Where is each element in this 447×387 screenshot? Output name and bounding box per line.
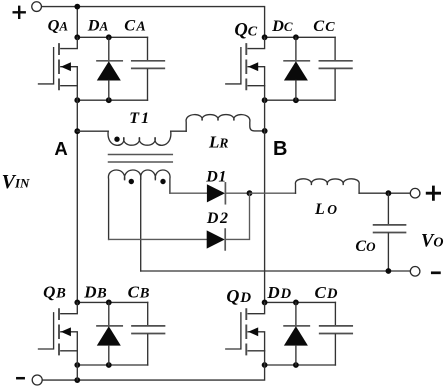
svg-text:LR: LR — [208, 133, 228, 152]
output + sign — [427, 187, 439, 199]
transistor QC (MOSFET) — [226, 37, 265, 100]
svg-text:CO: CO — [355, 238, 376, 255]
input + sign — [14, 7, 25, 18]
svg-text:CD: CD — [315, 283, 339, 302]
diode DD — [284, 302, 309, 365]
diode D1 — [207, 183, 226, 204]
wire top-right source bus — [265, 99, 336, 101]
junction DD top — [293, 300, 299, 306]
transistor QD (MOSFET) — [226, 302, 265, 365]
inductor LR — [186, 115, 265, 132]
junction DA bottom — [106, 97, 112, 103]
wire top-left source bus — [77, 99, 147, 101]
junction QB drain — [74, 300, 80, 306]
wire QB source to bottom rail — [76, 365, 78, 380]
junction DB bottom — [106, 362, 112, 368]
capacitor CD — [320, 302, 353, 365]
input - terminal circle — [32, 375, 42, 385]
input - sign — [17, 377, 23, 380]
diode D2 — [207, 229, 226, 250]
transformer T1 primary winding — [108, 131, 171, 145]
svg-text:D2: D2 — [206, 210, 228, 227]
wire top-right drain bus — [265, 36, 336, 38]
svg-text:VIN: VIN — [2, 171, 30, 193]
capacitor CO — [374, 193, 406, 271]
junction QB source — [74, 362, 80, 368]
diode DB — [97, 302, 122, 365]
svg-text:LO: LO — [314, 201, 337, 218]
T1 primary polarity dot — [114, 137, 119, 142]
wire D1 cathode to junction — [225, 192, 249, 194]
svg-text:DB: DB — [83, 283, 107, 302]
transistor QA (MOSFET) — [39, 37, 78, 100]
diode DC — [284, 37, 309, 100]
junction DC top — [293, 34, 299, 40]
transformer T1 secondary winding — [108, 170, 170, 271]
junction QB source column / bottom rail — [74, 377, 80, 383]
junction QC source — [262, 97, 268, 103]
capacitor CA — [132, 37, 165, 100]
output - sign — [432, 271, 439, 274]
svg-text:QC: QC — [234, 21, 257, 41]
svg-text:CB: CB — [128, 283, 150, 302]
svg-text:D1: D1 — [205, 169, 226, 186]
svg-text:QD: QD — [226, 286, 251, 306]
junction QA source — [74, 97, 80, 103]
diode DA — [97, 37, 122, 100]
capacitor CB — [132, 302, 165, 365]
wire node A to primary — [77, 130, 108, 132]
input + terminal circle — [32, 2, 42, 12]
svg-text:DD: DD — [266, 283, 291, 302]
wire bottom-left drain bus — [77, 301, 147, 303]
node A junction — [74, 128, 80, 134]
wire top-left drain bus — [77, 36, 147, 38]
node B junction — [262, 128, 268, 134]
junction QD source — [262, 362, 268, 368]
svg-text:DC: DC — [271, 16, 293, 35]
junction DB top — [106, 300, 112, 306]
wire bottom-right source bus — [265, 364, 336, 366]
transformer T1 core — [109, 155, 173, 163]
output + terminal circle — [410, 188, 420, 198]
svg-text:CA: CA — [124, 15, 145, 34]
wire bottom-left source bus — [77, 364, 147, 366]
junction top rail / QA column — [74, 4, 80, 10]
inductor LO — [295, 179, 359, 193]
svg-text:QA: QA — [48, 16, 69, 35]
wire LO to + output — [359, 192, 410, 194]
wire QA drain column — [76, 7, 78, 38]
wire primary to LR — [171, 130, 187, 132]
wire rectifier junction to LO — [250, 192, 296, 194]
wire D2 anode from secondary bottom — [109, 238, 207, 240]
wire D2 cathode up to junction — [225, 193, 249, 239]
wire left bridge leg (node A column) — [76, 100, 78, 302]
junction DA anode-bus top — [106, 34, 112, 40]
junction D1/D2 output — [247, 190, 253, 196]
T1 secondary polarity dot right — [160, 179, 165, 184]
wire output return rail (center tap to - output) — [141, 270, 411, 272]
wire bottom rail from - terminal to QD source — [42, 365, 265, 380]
junction QA drain — [74, 34, 80, 40]
T1 secondary polarity dot left — [129, 179, 134, 184]
T1 center tap wire — [140, 179, 142, 271]
svg-text:DA: DA — [87, 15, 109, 34]
transistor QB (MOSFET) — [39, 302, 78, 365]
svg-text:A: A — [54, 138, 67, 159]
wire D1 anode from secondary — [170, 192, 207, 194]
svg-text:CC: CC — [313, 16, 335, 35]
junction DD bottom — [293, 362, 299, 368]
wire right bridge leg (node B column) — [264, 100, 266, 302]
capacitor CC — [319, 37, 352, 100]
svg-text:QB: QB — [43, 283, 66, 302]
output - terminal circle — [410, 267, 420, 277]
wire top rail from + terminal to QC drain — [41, 7, 264, 38]
svg-text:VO: VO — [421, 231, 443, 251]
junction CO top — [386, 190, 392, 196]
wire bottom-right drain bus — [265, 301, 336, 303]
junction QD drain — [262, 300, 268, 306]
junction DC bottom — [293, 97, 299, 103]
junction QC drain — [262, 34, 268, 40]
svg-text:B: B — [273, 138, 287, 160]
svg-text:T1: T1 — [129, 110, 149, 127]
junction CO bottom — [386, 268, 392, 274]
